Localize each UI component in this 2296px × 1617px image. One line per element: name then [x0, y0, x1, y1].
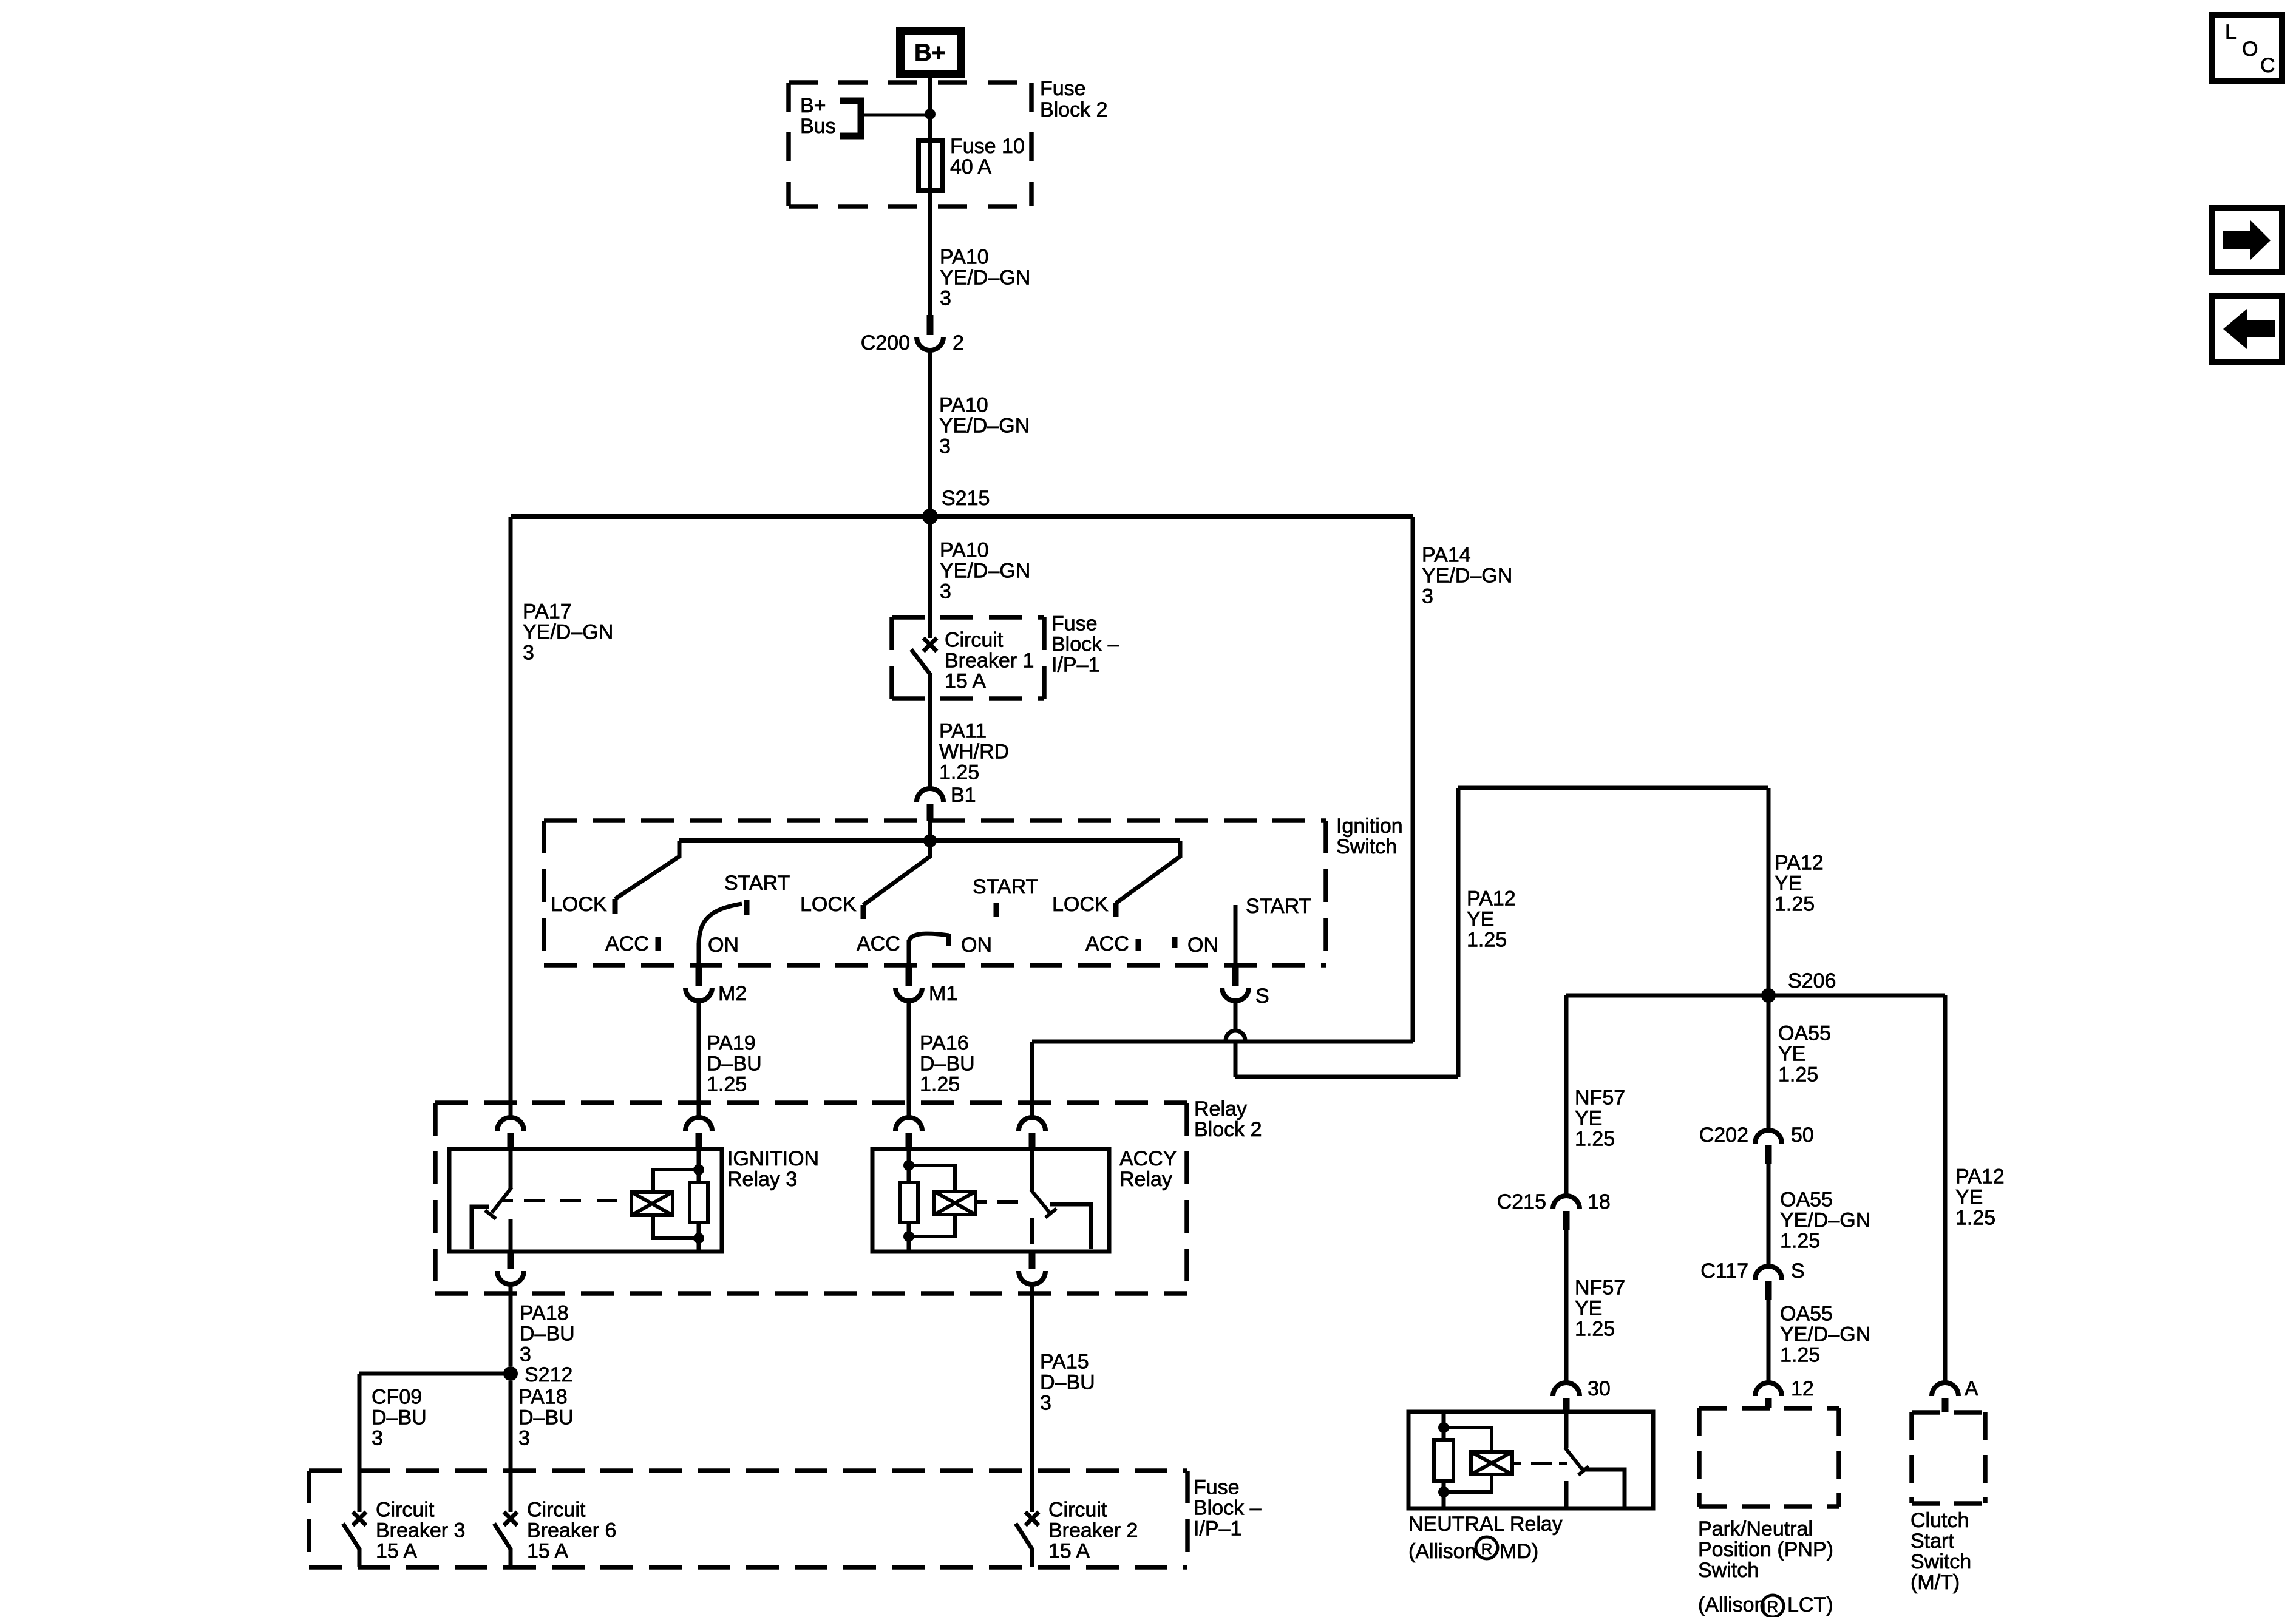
svg-text:WH/RD: WH/RD [939, 741, 1009, 764]
svg-text:O: O [2242, 38, 2258, 61]
svg-text:Block 2: Block 2 [1040, 98, 1108, 121]
svg-text:PA12: PA12 [1775, 852, 1824, 875]
svg-text:15 A: 15 A [945, 670, 986, 693]
svg-text:PA10: PA10 [940, 246, 989, 269]
svg-text:YE: YE [1467, 908, 1494, 931]
svg-text:YE: YE [1778, 1043, 1805, 1066]
svg-text:Circuit: Circuit [527, 1499, 586, 1522]
svg-text:Clutch: Clutch [1911, 1509, 1969, 1532]
svg-text:I/P–1: I/P–1 [1194, 1517, 1241, 1541]
svg-text:1.25: 1.25 [1575, 1128, 1615, 1151]
svg-text:B1: B1 [951, 784, 976, 807]
svg-text:1.25: 1.25 [707, 1073, 747, 1096]
svg-text:LOCK: LOCK [1052, 893, 1109, 916]
svg-text:ACCY: ACCY [1119, 1147, 1177, 1170]
svg-text:Fuse: Fuse [1194, 1476, 1240, 1499]
svg-text:Switch: Switch [1698, 1559, 1759, 1582]
svg-text:15 A: 15 A [527, 1540, 568, 1563]
svg-text:LCT): LCT) [1787, 1593, 1833, 1616]
svg-text:YE: YE [1775, 872, 1802, 895]
svg-text:1.25: 1.25 [920, 1073, 960, 1096]
svg-text:LOCK: LOCK [800, 893, 857, 916]
svg-text:1.25: 1.25 [939, 761, 979, 784]
svg-text:Fuse: Fuse [1051, 612, 1098, 636]
svg-text:B+: B+ [914, 39, 946, 66]
svg-text:PA17: PA17 [523, 600, 572, 623]
svg-text:LOCK: LOCK [551, 893, 607, 916]
svg-text:1.25: 1.25 [1780, 1344, 1820, 1367]
svg-text:B+: B+ [800, 94, 826, 117]
svg-text:D–BU: D–BU [518, 1406, 574, 1429]
svg-text:START: START [973, 875, 1038, 898]
svg-text:Switch: Switch [1336, 835, 1397, 858]
svg-text:Relay: Relay [1119, 1168, 1172, 1191]
svg-text:PA19: PA19 [707, 1032, 756, 1055]
svg-text:Breaker 3: Breaker 3 [376, 1519, 465, 1542]
svg-text:D–BU: D–BU [1040, 1371, 1095, 1394]
svg-text:PA10: PA10 [939, 394, 988, 417]
svg-text:YE: YE [1575, 1107, 1602, 1130]
svg-text:3: 3 [940, 580, 951, 603]
svg-text:3: 3 [1040, 1392, 1051, 1415]
svg-text:3: 3 [940, 287, 951, 310]
svg-text:NF57: NF57 [1575, 1276, 1625, 1300]
svg-text:Bus: Bus [800, 115, 836, 138]
svg-text:2: 2 [953, 331, 964, 354]
svg-text:1.25: 1.25 [1780, 1230, 1820, 1253]
svg-text:PA10: PA10 [940, 539, 989, 562]
svg-text:S212: S212 [525, 1363, 572, 1386]
svg-text:START: START [724, 872, 790, 895]
svg-text:YE: YE [1575, 1297, 1602, 1320]
svg-text:Breaker 2: Breaker 2 [1048, 1519, 1138, 1542]
svg-text:NF57: NF57 [1575, 1086, 1625, 1110]
svg-text:PA18: PA18 [518, 1386, 568, 1409]
svg-text:PA18: PA18 [520, 1302, 569, 1325]
svg-text:L: L [2225, 21, 2237, 44]
svg-text:(Allison: (Allison [1698, 1593, 1765, 1616]
svg-text:Switch: Switch [1911, 1550, 1971, 1573]
svg-text:YE/D–GN: YE/D–GN [1422, 564, 1512, 588]
svg-text:D–BU: D–BU [920, 1053, 975, 1076]
svg-text:Block 2: Block 2 [1194, 1118, 1262, 1141]
svg-text:PA12: PA12 [1955, 1165, 2005, 1188]
svg-text:YE: YE [1955, 1186, 1983, 1209]
svg-text:OA55: OA55 [1780, 1188, 1833, 1212]
svg-text:Position (PNP): Position (PNP) [1698, 1538, 1833, 1561]
svg-text:3: 3 [939, 435, 951, 458]
svg-text:PA12: PA12 [1467, 887, 1516, 910]
svg-text:Ignition: Ignition [1336, 815, 1403, 838]
svg-text:C: C [2260, 54, 2275, 77]
svg-text:R: R [1481, 1540, 1493, 1558]
svg-text:ON: ON [1187, 934, 1218, 957]
svg-text:PA16: PA16 [920, 1032, 969, 1055]
svg-text:OA55: OA55 [1778, 1022, 1831, 1045]
svg-text:YE/D–GN: YE/D–GN [523, 621, 613, 644]
svg-text:YE/D–GN: YE/D–GN [940, 266, 1030, 290]
svg-text:3: 3 [523, 642, 534, 665]
svg-text:PA14: PA14 [1422, 544, 1471, 567]
svg-text:1.25: 1.25 [1467, 929, 1507, 952]
svg-text:15 A: 15 A [376, 1540, 417, 1563]
svg-text:(Allison: (Allison [1408, 1540, 1476, 1563]
svg-text:D–BU: D–BU [707, 1053, 762, 1076]
svg-text:M2: M2 [718, 982, 747, 1005]
svg-text:S215: S215 [942, 487, 990, 510]
svg-text:PA15: PA15 [1040, 1351, 1089, 1374]
svg-text:D–BU: D–BU [372, 1406, 427, 1429]
svg-text:(M/T): (M/T) [1911, 1571, 1960, 1594]
svg-text:C200: C200 [861, 331, 910, 354]
svg-text:YE/D–GN: YE/D–GN [1780, 1323, 1870, 1346]
svg-text:R: R [1767, 1598, 1779, 1616]
svg-text:Fuse 10: Fuse 10 [950, 135, 1025, 158]
svg-text:PA11: PA11 [939, 720, 987, 743]
svg-text:YE/D–GN: YE/D–GN [939, 415, 1030, 438]
svg-text:ON: ON [961, 934, 992, 957]
svg-text:3: 3 [518, 1427, 530, 1450]
svg-text:I/P–1: I/P–1 [1051, 654, 1099, 677]
svg-text:Circuit: Circuit [376, 1499, 435, 1522]
svg-text:S: S [1255, 985, 1269, 1008]
svg-text:Relay: Relay [1194, 1097, 1247, 1120]
svg-text:1.25: 1.25 [1575, 1318, 1615, 1341]
svg-text:40 A: 40 A [950, 155, 991, 178]
svg-text:30: 30 [1588, 1377, 1611, 1400]
svg-text:C202: C202 [1699, 1124, 1748, 1147]
svg-text:MD): MD) [1500, 1540, 1538, 1563]
svg-text:Fuse: Fuse [1040, 77, 1086, 100]
svg-text:Breaker 6: Breaker 6 [527, 1519, 616, 1542]
svg-text:ACC: ACC [857, 932, 900, 955]
svg-text:Breaker 1: Breaker 1 [945, 649, 1034, 673]
svg-text:1.25: 1.25 [1775, 893, 1815, 916]
svg-text:YE/D–GN: YE/D–GN [940, 560, 1030, 583]
svg-text:A: A [1965, 1377, 1978, 1400]
svg-text:12: 12 [1791, 1377, 1814, 1400]
svg-text:M1: M1 [929, 982, 957, 1005]
svg-text:CF09: CF09 [372, 1386, 422, 1409]
svg-text:OA55: OA55 [1780, 1303, 1833, 1326]
svg-text:C215: C215 [1497, 1190, 1546, 1213]
svg-text:1.25: 1.25 [1955, 1207, 1995, 1230]
svg-text:Block –: Block – [1194, 1497, 1262, 1520]
svg-text:Circuit: Circuit [1048, 1499, 1107, 1522]
svg-text:S206: S206 [1788, 969, 1836, 992]
svg-text:Start: Start [1911, 1530, 1954, 1553]
svg-text:ACC: ACC [1085, 932, 1129, 955]
svg-text:NEUTRAL Relay: NEUTRAL Relay [1408, 1513, 1563, 1536]
svg-text:C117: C117 [1700, 1259, 1748, 1283]
svg-text:Relay 3: Relay 3 [727, 1168, 797, 1191]
svg-text:Park/Neutral: Park/Neutral [1698, 1517, 1813, 1541]
svg-text:3: 3 [520, 1343, 531, 1366]
svg-text:3: 3 [1422, 585, 1433, 608]
svg-text:15 A: 15 A [1048, 1540, 1090, 1563]
svg-text:Circuit: Circuit [945, 629, 1004, 652]
svg-text:YE/D–GN: YE/D–GN [1780, 1209, 1870, 1232]
svg-text:ACC: ACC [605, 932, 649, 955]
svg-text:ON: ON [708, 934, 739, 957]
svg-text:Block –: Block – [1051, 633, 1119, 656]
svg-text:50: 50 [1791, 1124, 1814, 1147]
svg-text:S: S [1791, 1259, 1805, 1283]
svg-text:3: 3 [372, 1427, 383, 1450]
svg-text:D–BU: D–BU [520, 1323, 575, 1346]
svg-text:IGNITION: IGNITION [727, 1147, 819, 1170]
svg-text:START: START [1246, 895, 1311, 918]
svg-text:18: 18 [1588, 1190, 1611, 1213]
svg-text:1.25: 1.25 [1778, 1063, 1818, 1086]
